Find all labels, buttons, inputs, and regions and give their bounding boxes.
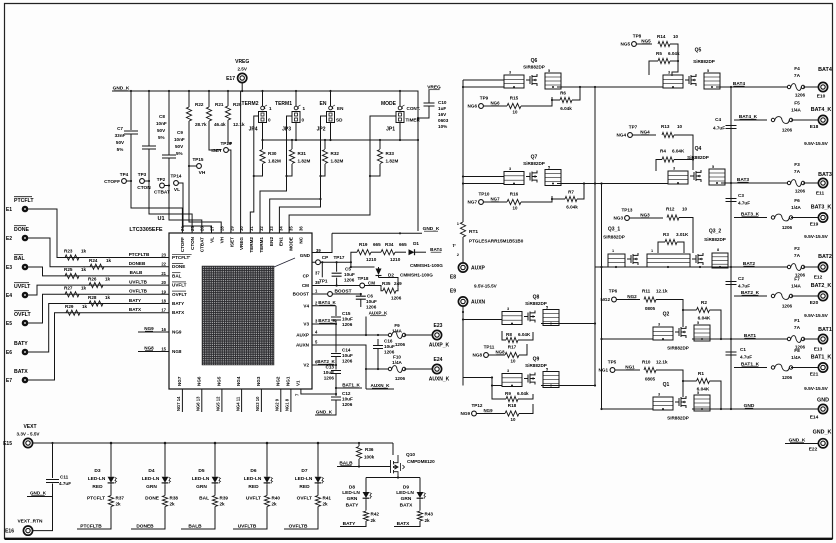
wire CP to R19 — [351, 252, 357, 262]
wire F3 to E11 — [803, 182, 818, 184]
svg-text:5: 5 — [546, 368, 548, 372]
svg-text:OVFLT: OVFLT — [172, 292, 187, 297]
LED D6 LED-LN RED — [266, 476, 268, 477]
svg-text:7A: 7A — [794, 325, 801, 331]
wire C8 top — [148, 91, 150, 146]
svg-text:Q10: Q10 — [406, 452, 415, 458]
wire R18 to Q9 gate — [519, 404, 533, 414]
svg-text:NG5: NG5 — [216, 376, 221, 386]
svg-text:PTCFLT': PTCFLT' — [172, 255, 190, 260]
wire C7 top — [130, 91, 132, 130]
svg-text:Q9: Q9 — [533, 357, 540, 363]
svg-text:2.5V: 2.5V — [237, 67, 247, 72]
resistor R31 1.82M — [289, 150, 294, 164]
svg-text:U1: U1 — [157, 216, 164, 222]
svg-text:NC: NC — [298, 236, 303, 243]
svg-text:6.04k: 6.04k — [566, 205, 578, 210]
svg-text:Q8: Q8 — [533, 295, 540, 301]
wire AUXP bus top — [463, 80, 504, 221]
svg-text:R32: R32 — [331, 151, 340, 156]
svg-text:MODE: MODE — [381, 101, 397, 107]
svg-text:6.04K: 6.04K — [698, 316, 711, 322]
svg-text:TP1: TP1 — [319, 279, 328, 284]
wire R36 top — [358, 443, 360, 446]
svg-text:BAL: BAL — [172, 273, 182, 278]
wire JP1 top — [399, 91, 401, 106]
wire pin6 V2 — [312, 364, 336, 366]
svg-text:F7: F7 — [794, 277, 800, 283]
svg-text:E2: E2 — [6, 236, 12, 242]
fuse F5 1/4A — [771, 118, 774, 121]
wire JP1 bottom — [399, 123, 401, 141]
mosfet Q3_1 SiR882DP — [608, 248, 728, 268]
svg-text:UVFLTB: UVFLTB — [129, 279, 147, 284]
resistor R29 1k — [66, 310, 80, 315]
wire C16 bottom — [377, 349, 379, 369]
svg-text:665: 665 — [373, 242, 381, 247]
terminal E23 AUXP_K — [432, 330, 441, 339]
svg-text:3: 3 — [507, 369, 509, 373]
wire R10 to Q1 gate — [656, 370, 683, 381]
wire NG1 — [615, 369, 640, 371]
svg-text:LED-LN: LED-LN — [142, 476, 160, 482]
svg-text:CP: CP — [322, 255, 328, 260]
svg-text:R43: R43 — [425, 512, 434, 517]
wire NG9 to R18 — [476, 413, 505, 415]
capacitor C14 10uF — [331, 354, 341, 357]
resistor R6 6.04k — [560, 97, 572, 102]
svg-text:UVFLT: UVFLT — [14, 284, 31, 290]
svg-text:CMMSH1-100G: CMMSH1-100G — [400, 273, 433, 278]
svg-text:R5: R5 — [656, 51, 662, 56]
capacitor C6 10uF — [356, 296, 366, 299]
wire E4 UVFLT to pin20 — [28, 285, 169, 295]
wire R21 top — [208, 91, 210, 107]
wire D8 top — [365, 478, 367, 492]
svg-text:EN: EN — [320, 101, 327, 107]
resistor R36 100k — [356, 447, 361, 459]
svg-text:1206: 1206 — [795, 189, 806, 194]
svg-text:EN2: EN2 — [269, 237, 274, 246]
svg-text:AUXN: AUXN — [296, 343, 310, 348]
svg-text:NG5 12: NG5 12 — [216, 396, 221, 411]
wire NG5 — [636, 43, 652, 45]
svg-text:UVFLT: UVFLT — [246, 496, 261, 502]
wire to D2 — [351, 266, 375, 268]
svg-text:E7: E7 — [6, 378, 12, 384]
svg-text:5%: 5% — [158, 135, 165, 140]
wire E7 BATX to pin17 — [28, 313, 169, 380]
svg-text:10: 10 — [673, 34, 679, 39]
svg-text:Q4: Q4 — [695, 146, 702, 152]
svg-text:D2: D2 — [388, 273, 394, 278]
resistor R4 6.04K — [662, 157, 674, 162]
terminal E8 AUXP — [458, 263, 467, 272]
svg-text:CM: CM — [368, 280, 375, 285]
svg-text:F6: F6 — [794, 198, 800, 204]
svg-text:GND_K: GND_K — [30, 491, 47, 496]
wire RT1 to AUXP term — [462, 221, 464, 262]
wire C5 top — [336, 262, 338, 272]
resistor R14 10 — [658, 41, 670, 46]
svg-text:E22: E22 — [809, 447, 818, 453]
svg-text:R15: R15 — [510, 96, 519, 101]
svg-text:5: 5 — [712, 165, 714, 169]
resistor R35 249 — [383, 288, 396, 293]
svg-text:BAT3: BAT3 — [818, 172, 832, 178]
wire R11 to Q2 gate — [656, 300, 683, 311]
svg-text:NG2: NG2 — [627, 294, 637, 299]
svg-text:OVFLT: OVFLT — [14, 312, 31, 318]
jumper JP3 TERM1 — [294, 106, 298, 110]
svg-text:5%: 5% — [176, 151, 183, 156]
svg-text:GRN: GRN — [347, 496, 358, 502]
svg-text:V1: V1 — [295, 380, 300, 386]
svg-text:4.7uF: 4.7uF — [740, 355, 752, 360]
svg-text:10uF: 10uF — [342, 353, 353, 358]
wire pin4 AUXP — [312, 334, 388, 336]
svg-text:10: 10 — [513, 206, 518, 211]
svg-text:1/4A: 1/4A — [791, 205, 801, 210]
jumper JP2 EN — [329, 106, 333, 110]
svg-text:30: 30 — [239, 226, 244, 231]
terminal E1 PTCFLT — [22, 206, 29, 213]
mosfet Q2 SiR882DP — [653, 321, 710, 341]
svg-text:E6: E6 — [6, 350, 12, 356]
svg-text:E24: E24 — [434, 357, 443, 363]
resistor R13 10 — [662, 132, 674, 137]
svg-text:10uF: 10uF — [342, 317, 353, 322]
svg-text:JP2: JP2 — [317, 127, 326, 133]
wire C11 bottom — [27, 484, 53, 497]
svg-text:DONE: DONE — [172, 264, 185, 269]
svg-text:VH: VH — [199, 170, 206, 176]
svg-text:1.82M: 1.82M — [331, 159, 344, 164]
svg-text:0805: 0805 — [645, 377, 656, 382]
wire R32 bottom — [321, 164, 326, 176]
terminal E19 BAT3_K — [818, 213, 827, 222]
svg-text:50V: 50V — [175, 144, 184, 149]
wire R5 wiring — [649, 61, 678, 76]
svg-text:E15: E15 — [3, 441, 12, 447]
capacitor C2 4.7uF — [726, 282, 737, 285]
svg-text:7A: 7A — [794, 253, 801, 259]
svg-text:R38: R38 — [170, 496, 179, 501]
svg-text:R14: R14 — [657, 34, 666, 39]
svg-text:1/4A: 1/4A — [392, 360, 402, 365]
svg-text:9.5V-15.5V: 9.5V-15.5V — [474, 284, 498, 289]
svg-text:RED: RED — [248, 484, 259, 490]
wire C5 bottom — [336, 278, 338, 286]
svg-text:E1: E1 — [6, 207, 12, 213]
svg-text:12.1k: 12.1k — [233, 122, 245, 127]
svg-text:12.1k: 12.1k — [656, 289, 668, 294]
svg-text:TP9: TP9 — [480, 96, 489, 101]
svg-text:R35: R35 — [382, 281, 391, 286]
svg-text:R18: R18 — [508, 403, 517, 408]
svg-text:V2: V2 — [303, 363, 309, 368]
wire ISET route — [209, 121, 221, 150]
svg-text:Q2: Q2 — [663, 312, 670, 318]
resistor R24 1k — [90, 264, 104, 269]
svg-text:R17: R17 — [508, 345, 517, 350]
svg-text:4.7uF: 4.7uF — [738, 284, 750, 289]
wire VL to pin27 — [178, 183, 211, 233]
mosfet Q5 SiR882DP — [663, 69, 720, 89]
svg-text:SiR882DP: SiR882DP — [525, 301, 547, 306]
wire R41 to OVFLTB — [284, 507, 318, 530]
svg-text:E18: E18 — [810, 124, 819, 130]
LED D4 LED-LN GRN — [164, 476, 166, 477]
wire BAT4_K stub — [734, 119, 767, 121]
svg-text:R12: R12 — [666, 207, 675, 212]
testpoint TP5 NG1 — [610, 368, 615, 373]
svg-text:NG6: NG6 — [468, 104, 478, 109]
wire E3 BAL to pin21 — [28, 267, 169, 276]
svg-text:R13: R13 — [661, 124, 670, 129]
svg-text:665: 665 — [399, 242, 407, 247]
svg-text:NG7: NG7 — [468, 200, 478, 205]
wire E5 OVFLT to pin19 — [28, 294, 169, 323]
svg-text:NG3: NG3 — [256, 376, 261, 386]
svg-text:5: 5 — [546, 306, 548, 310]
svg-text:VEXT_RTN: VEXT_RTN — [17, 519, 43, 525]
wire JP3 bottom — [295, 123, 297, 141]
svg-text:E20: E20 — [810, 300, 819, 306]
wire rail to R33 — [379, 140, 381, 149]
svg-text:BAT3_K: BAT3_K — [318, 318, 336, 323]
svg-text:1206: 1206 — [782, 128, 793, 133]
wire pin37 riser — [321, 262, 323, 277]
wire EN2 to pin33 — [270, 116, 321, 233]
wire NG6 to R15 — [483, 105, 507, 107]
resistor R23 1k — [65, 255, 79, 260]
svg-text:SiR882DP: SiR882DP — [525, 363, 547, 368]
svg-text:ISET: ISET — [211, 148, 222, 154]
wire JP4 middle tap — [254, 116, 259, 140]
svg-text:E3: E3 — [6, 265, 12, 271]
svg-text:SiR882DP: SiR882DP — [523, 161, 545, 166]
svg-text:10: 10 — [513, 110, 518, 115]
svg-text:BATY: BATY — [346, 503, 360, 509]
svg-text:3.01K: 3.01K — [676, 232, 689, 237]
svg-text:VL: VL — [210, 237, 215, 243]
svg-text:1: 1 — [269, 106, 272, 111]
svg-text:BATY: BATY — [172, 301, 184, 306]
testpoint TP14 VL — [174, 181, 179, 186]
svg-text:Q3_2: Q3_2 — [709, 229, 721, 235]
svg-text:2k: 2k — [272, 502, 278, 507]
svg-text:BAT4_K: BAT4_K — [811, 107, 832, 113]
svg-text:7A: 7A — [794, 169, 801, 175]
svg-text:BAT4: BAT4 — [430, 247, 442, 252]
svg-text:1206: 1206 — [324, 376, 335, 381]
svg-text:R11: R11 — [642, 289, 651, 294]
svg-text:NG9: NG9 — [144, 326, 154, 331]
wire R4 wiring — [656, 156, 693, 171]
svg-text:GRN: GRN — [401, 496, 412, 502]
svg-text:C4: C4 — [715, 117, 721, 122]
testpoint TP4 CTOFF — [122, 179, 127, 184]
wire NG8 stub pin15 — [138, 351, 169, 353]
wire GND row right — [692, 408, 818, 410]
capacitor C15 10uF — [331, 317, 341, 320]
wire F10 to E24 — [404, 368, 432, 370]
svg-text:R29: R29 — [65, 304, 74, 309]
svg-text:0603: 0603 — [438, 118, 449, 123]
svg-text:Q3_1: Q3_1 — [608, 227, 620, 233]
svg-text:SiR882DP: SiR882DP — [523, 65, 545, 70]
svg-text:D5: D5 — [198, 468, 204, 474]
svg-text:LED-LN: LED-LN — [88, 476, 106, 482]
wire BAT2_K stub — [734, 295, 767, 297]
wire F6 to E19 — [791, 217, 818, 219]
svg-text:2k: 2k — [371, 518, 377, 523]
svg-text:NG7: NG7 — [490, 197, 500, 202]
resistor R37 2k — [108, 496, 113, 507]
wire VH to pin28 — [189, 121, 221, 233]
svg-text:TERM1: TERM1 — [275, 101, 292, 107]
wire Q6 right to bus — [557, 86, 595, 88]
wire CTBAT to pin26 — [169, 159, 202, 234]
wire R19-R34 — [371, 251, 381, 253]
svg-text:CTOFF: CTOFF — [180, 237, 185, 252]
svg-text:D9: D9 — [403, 485, 409, 491]
resistor R7 6.04k — [565, 196, 577, 201]
svg-text:R3: R3 — [663, 232, 669, 237]
wire NG3 — [629, 217, 663, 219]
svg-text:CTON: CTON — [137, 185, 151, 191]
svg-text:10uF: 10uF — [366, 299, 377, 304]
svg-text:1206: 1206 — [782, 225, 793, 230]
svg-text:1206: 1206 — [395, 376, 406, 381]
svg-text:BALB: BALB — [188, 524, 202, 530]
wire Q2 gate drop — [682, 310, 684, 327]
svg-text:1.82M: 1.82M — [298, 159, 311, 164]
svg-text:9.5V-15.5V: 9.5V-15.5V — [804, 313, 829, 319]
svg-text:AUXN_K: AUXN_K — [371, 383, 391, 388]
wire cap bus vertical — [730, 87, 732, 409]
testpoint BOOST — [328, 292, 333, 297]
wire R34-D1 — [395, 251, 406, 253]
svg-text:0: 0 — [302, 118, 305, 123]
svg-text:D6: D6 — [250, 468, 256, 474]
svg-text:36: 36 — [298, 226, 303, 231]
svg-text:1/4A: 1/4A — [392, 329, 402, 334]
svg-text:V4: V4 — [303, 303, 309, 308]
wire MODE to pin35 — [289, 116, 370, 233]
svg-text:E19: E19 — [810, 222, 819, 228]
svg-text:VREG: VREG — [235, 59, 249, 65]
svg-text:SiR882DP: SiR882DP — [603, 235, 625, 240]
wire E6 BATY to pin18 — [28, 304, 169, 353]
svg-text:BAT2_K: BAT2_K — [811, 283, 832, 289]
svg-text:NG9: NG9 — [172, 330, 182, 335]
svg-text:6.04k: 6.04k — [668, 51, 680, 56]
jumper JP1 MODE — [398, 106, 402, 110]
svg-text:SD: SD — [336, 118, 343, 123]
svg-text:LED-LN: LED-LN — [295, 476, 313, 482]
wire JP4 top — [262, 91, 264, 106]
svg-text:3: 3 — [509, 167, 511, 171]
svg-text:46.4k: 46.4k — [214, 122, 226, 127]
wire jumper common rail — [263, 139, 419, 141]
svg-text:NG9: NG9 — [483, 408, 493, 413]
wire AUXP_K branch — [365, 317, 367, 336]
wire D9 top — [419, 478, 421, 492]
wire F1 to E13 — [803, 338, 818, 340]
svg-text:R22: R22 — [195, 102, 204, 107]
svg-text:BAT1_K: BAT1_K — [811, 355, 832, 361]
LED D8 LED-LN GRN — [365, 491, 367, 492]
svg-text:R1: R1 — [698, 371, 704, 377]
wire R1 wiring — [683, 381, 721, 409]
resistor R33 1.82M — [377, 150, 382, 164]
svg-text:1uF: 1uF — [438, 106, 446, 111]
svg-text:Q5: Q5 — [695, 48, 702, 54]
wire rail to R30 — [262, 140, 264, 149]
svg-text:1k: 1k — [81, 249, 87, 254]
wire BAT3 row left — [566, 183, 668, 185]
terminal E2 DONE — [22, 235, 29, 242]
svg-text:C10: C10 — [438, 100, 447, 105]
svg-text:10: 10 — [511, 359, 516, 364]
svg-text:TP4: TP4 — [120, 172, 129, 177]
svg-text:F4: F4 — [794, 66, 800, 72]
svg-text:15: 15 — [161, 347, 166, 352]
svg-text:NG6 13: NG6 13 — [196, 396, 201, 411]
testpoint TP8 NG5 — [632, 42, 637, 47]
wire R6 wiring — [552, 87, 580, 100]
wire BAT1 row left — [602, 338, 654, 340]
svg-text:1210: 1210 — [366, 257, 377, 262]
svg-text:6.04k: 6.04k — [560, 106, 572, 111]
wire R37 to PTCFLTB — [77, 507, 111, 530]
svg-text:t°: t° — [453, 243, 457, 248]
svg-text:10uF: 10uF — [323, 370, 334, 375]
svg-text:C15: C15 — [342, 311, 351, 316]
svg-text:33nF: 33nF — [115, 133, 126, 138]
wire CTOFF to pin24 — [131, 135, 182, 234]
svg-text:C2: C2 — [738, 276, 744, 281]
svg-text:50V: 50V — [116, 140, 125, 145]
svg-text:10: 10 — [511, 417, 516, 422]
wire D3 to R37 — [110, 484, 112, 495]
wire R15 to Q6 gate — [521, 97, 552, 106]
resistor R3 3.01K — [665, 239, 677, 244]
wire E2 DONE to pin22 — [28, 238, 169, 267]
capacitor C3 4.7uF — [726, 199, 737, 202]
wire Q7 right to bus — [557, 183, 595, 185]
terminal E15 VEXT — [23, 438, 32, 447]
svg-text:C7: C7 — [117, 126, 123, 131]
wire E1 PTCFLT to pin23 — [28, 209, 169, 258]
svg-text:4.7uF: 4.7uF — [713, 126, 725, 131]
wire D4 column top — [164, 443, 166, 476]
mosfet Q8 SiR882DP — [502, 295, 559, 326]
svg-text:NG3 10: NG3 10 — [255, 396, 260, 411]
svg-text:BAT2: BAT2 — [818, 254, 832, 260]
svg-text:NG4: NG4 — [640, 130, 650, 135]
svg-text:TP14: TP14 — [171, 174, 182, 179]
svg-text:CMPDM8120: CMPDM8120 — [407, 459, 435, 464]
wire JP2 middle tap — [321, 116, 327, 140]
svg-text:1206: 1206 — [795, 93, 806, 98]
svg-text:PTGLESARR15M1B51B0: PTGLESARR15M1B51B0 — [469, 239, 524, 244]
svg-text:100k: 100k — [364, 455, 375, 460]
svg-text:10uF: 10uF — [384, 344, 395, 349]
wire R7 wiring — [552, 185, 584, 200]
